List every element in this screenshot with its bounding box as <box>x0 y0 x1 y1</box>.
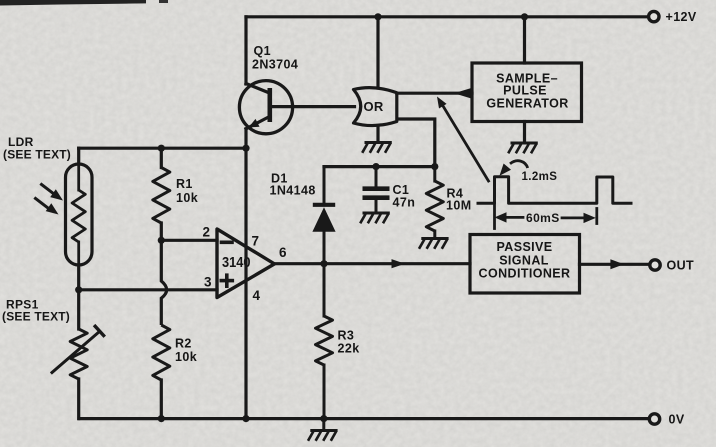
preset resistor RPS1 <box>52 326 104 379</box>
wire net D1/C1/R4 horizontal <box>324 165 435 168</box>
wire pin 3 (node B to non-inverting input) <box>79 288 217 291</box>
ground at 0V rail <box>308 419 338 441</box>
wire node B down to RPS1 <box>77 290 80 329</box>
op-amp U1 3140 <box>217 229 275 298</box>
svg-text:1N4148: 1N4148 <box>270 184 316 198</box>
svg-text:(SEE TEXT): (SEE TEXT) <box>2 310 70 324</box>
wire Q1 emitter to node A <box>244 129 247 148</box>
junction 0V rail / R2 <box>158 415 165 422</box>
op-amp inverting symbol - <box>222 241 233 245</box>
svg-text:1.2mS: 1.2mS <box>522 171 558 183</box>
wire +12V top rail <box>246 15 648 18</box>
wire op-amp supply vertical (pin7/pin4) <box>244 148 247 418</box>
junction 0V rail / R3 and ground <box>320 415 327 422</box>
wire OR gate ground stub <box>376 126 379 142</box>
junction node A / R1 top <box>158 145 165 152</box>
wire node A horizontal (LDR / R1 / Q1 emitter) <box>79 147 246 150</box>
curved arrow 1.2mS <box>510 161 528 168</box>
wire LDR bottom to node B <box>77 265 80 290</box>
scan artifact top edge <box>0 0 146 6</box>
ground below C1 <box>360 213 390 223</box>
junction net / R4 <box>431 163 438 170</box>
svg-text:2N3704: 2N3704 <box>252 58 298 72</box>
arrowhead on output wire <box>392 259 406 268</box>
wire Q1 base to OR gate <box>270 105 355 108</box>
svg-text:OUT: OUT <box>667 259 695 273</box>
ground below OR gate <box>362 143 392 153</box>
svg-text:SIGNAL: SIGNAL <box>499 253 549 267</box>
svg-text:OR: OR <box>364 99 384 114</box>
block sample-pulse generator <box>472 63 582 122</box>
terminal +12V <box>649 10 697 24</box>
svg-text:22k: 22k <box>338 342 360 356</box>
wire +12V rail to sample-pulse generator <box>523 17 526 63</box>
svg-text:7: 7 <box>252 234 260 249</box>
LDR RPS-sensor capsule <box>66 164 93 265</box>
junction top rail / OR gate supply <box>374 13 381 20</box>
wire RPS1 bottom to 0V rail <box>77 379 80 419</box>
svg-text:R3: R3 <box>338 329 355 343</box>
resistor R3 <box>316 264 333 419</box>
svg-text:10M: 10M <box>446 199 472 213</box>
resistor R1 <box>153 148 170 240</box>
diode D1 <box>312 167 335 264</box>
svg-text:3: 3 <box>204 275 212 290</box>
wire R1-R2 junction down with hop over pin3 wire <box>161 240 166 325</box>
junction net / C1 <box>372 163 379 170</box>
wire +12V rail to Q1 collector <box>244 17 247 84</box>
OR gate <box>354 88 397 126</box>
junction output / D1 / R3 <box>320 260 327 267</box>
terminal 0V <box>649 413 685 427</box>
junction top rail / sample-pulse generator <box>521 13 528 20</box>
block passive signal conditioner <box>470 235 580 294</box>
wire OR gate top supply from +12V rail <box>376 17 379 88</box>
svg-text:Q1: Q1 <box>254 44 271 58</box>
svg-text:10k: 10k <box>175 350 197 364</box>
svg-text:2: 2 <box>203 225 211 240</box>
terminal OUT <box>650 259 694 273</box>
dimension arrow 60mS right <box>562 216 583 219</box>
junction node B (LDR / RPS1 / pin3) <box>75 286 82 293</box>
capacitor C1 <box>363 167 390 212</box>
svg-text:R1: R1 <box>176 177 193 191</box>
wire OR gate to sample-pulse generator <box>397 92 472 95</box>
ground below R4 <box>419 239 449 249</box>
annotation diagonal arrow to pulse wire <box>442 104 489 182</box>
svg-text:4: 4 <box>253 288 261 303</box>
svg-text:GENERATOR: GENERATOR <box>486 96 568 110</box>
svg-text:CONDITIONER: CONDITIONER <box>479 267 571 281</box>
op-amp non-inverting symbol + <box>221 275 232 286</box>
svg-text:PASSIVE: PASSIVE <box>496 240 552 254</box>
svg-text:R2: R2 <box>175 337 192 351</box>
wire OR gate lower output L to R4 net <box>397 119 435 167</box>
svg-text:10k: 10k <box>176 191 198 205</box>
svg-text:60mS: 60mS <box>526 211 560 225</box>
wire generator ground stub <box>523 122 526 143</box>
ground below generator <box>508 143 538 153</box>
svg-text:+12V: +12V <box>666 10 697 24</box>
LDR light arrows <box>36 185 64 215</box>
wire conditioner to OUT <box>580 263 650 266</box>
dimension arrow 60mS left <box>505 216 523 219</box>
resistor R4 <box>426 167 443 238</box>
junction 0V rail / op-amp supply <box>242 415 249 422</box>
waveform extension line left <box>493 203 496 228</box>
LDR internal resistor <box>72 166 85 263</box>
arrowhead into OR gate <box>454 88 471 98</box>
junction node A / emitter line <box>242 145 249 152</box>
wire op-amp output pin 6 to passive signal conditioner <box>275 262 471 265</box>
transistor Q1 <box>239 81 292 134</box>
svg-text:47n: 47n <box>393 196 416 210</box>
resistor R2 <box>153 325 170 419</box>
junction R1 / R2 / pin2 wire <box>158 237 165 244</box>
arrowhead to OUT terminal <box>610 259 624 269</box>
waveform extension line right <box>595 209 598 224</box>
wire pin 2 (R1/R2 node to inverting input) <box>161 239 217 242</box>
wire 0V bottom rail <box>79 417 649 420</box>
wire LDR top to node A <box>77 148 80 164</box>
svg-text:6: 6 <box>279 245 287 260</box>
svg-text:0V: 0V <box>669 413 685 427</box>
waveform pulse train <box>477 177 633 204</box>
svg-text:(SEE TEXT): (SEE TEXT) <box>3 148 71 162</box>
